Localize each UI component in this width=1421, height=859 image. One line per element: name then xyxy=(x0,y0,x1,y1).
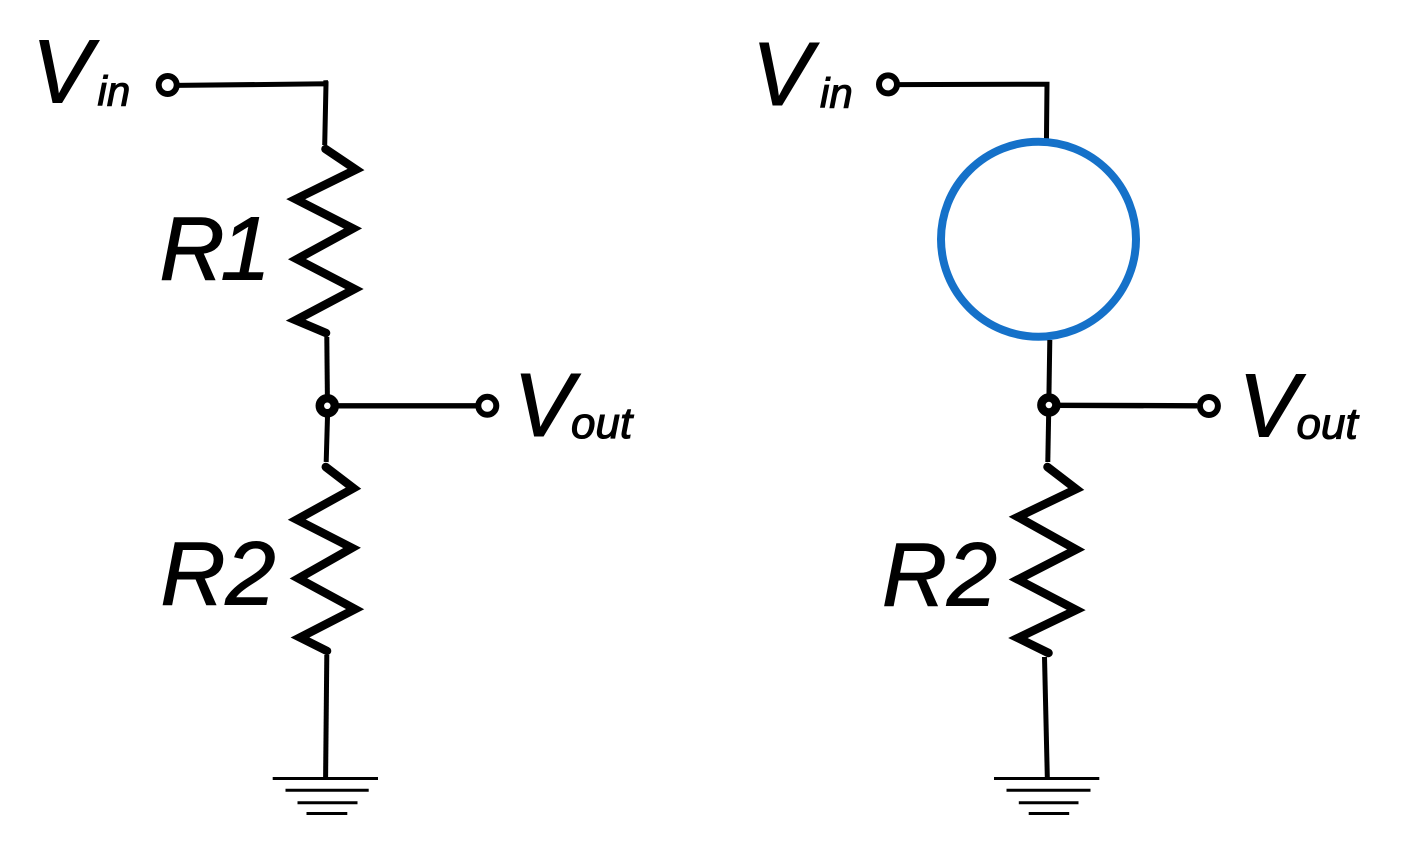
wire node to R2 top (left) xyxy=(326,413,327,462)
label R2 (left) xyxy=(161,525,276,625)
label R1 xyxy=(160,200,267,300)
resistor R2 (left) xyxy=(297,467,355,651)
terminal Vout (right) xyxy=(1200,397,1218,415)
terminal Vin (left) xyxy=(159,76,177,94)
wire Vin terminal to R1 top (left) xyxy=(177,80,326,145)
terminal Vin (right) xyxy=(879,75,897,93)
label R2 (right) xyxy=(882,526,997,626)
svg-text:R2: R2 xyxy=(161,525,276,625)
node Vout junction (left) xyxy=(320,398,335,413)
terminal Vout (left) xyxy=(478,397,496,415)
svg-text:out: out xyxy=(571,399,634,448)
svg-text:V: V xyxy=(752,25,820,125)
wire R1 bottom to node (left) xyxy=(324,337,330,398)
svg-text:in: in xyxy=(98,68,131,115)
node Vout junction (right) xyxy=(1041,398,1056,413)
svg-text:R2: R2 xyxy=(882,526,997,626)
resistor R2 (right) xyxy=(1018,467,1076,653)
wire Vin terminal to source top (right) xyxy=(898,84,1048,146)
svg-text:R1: R1 xyxy=(160,200,267,300)
wire node to Vout terminal (left) xyxy=(333,403,476,408)
label Vin (right) xyxy=(752,25,853,125)
ground (left) xyxy=(273,779,378,814)
wire R2 bottom to ground (right) xyxy=(1045,657,1048,777)
label Vout (left) xyxy=(514,356,634,456)
source U1 (circle symbol) xyxy=(941,142,1136,337)
svg-text:in: in xyxy=(820,70,853,117)
label Vin (left) xyxy=(32,23,130,123)
wire R2 bottom to ground (left) xyxy=(326,655,327,777)
wire node to R2 top (right) xyxy=(1045,412,1051,462)
svg-text:V: V xyxy=(32,23,100,123)
ground (right) xyxy=(994,779,1099,814)
wire node to Vout terminal (right) xyxy=(1055,403,1197,409)
svg-text:out: out xyxy=(1297,400,1360,449)
wire source bottom to node (right) xyxy=(1046,340,1052,398)
label Vout (right) xyxy=(1239,357,1360,457)
resistor R1 xyxy=(296,149,356,333)
